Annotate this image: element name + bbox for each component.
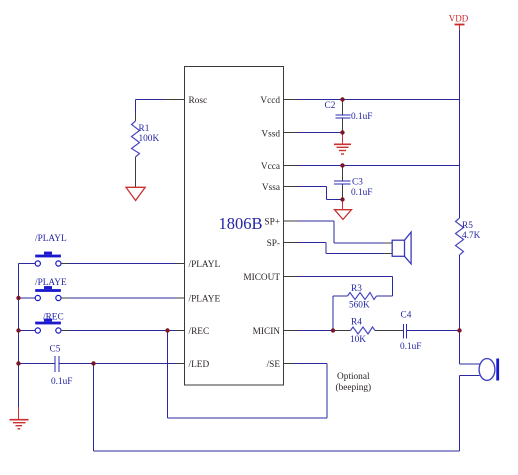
node Vccd-C2 junction [340, 97, 344, 101]
wire Vcca to VDD rail [284, 165, 460, 167]
pin /PLAYL label [189, 260, 221, 270]
wire bottom rail from C5 node to microphone [94, 364, 460, 452]
microphone MK1 [479, 359, 499, 381]
button /REC label [43, 313, 64, 323]
wire node to /LED pin [94, 363, 185, 365]
power VDD symbol [449, 14, 469, 31]
node bus-REC junction [16, 328, 20, 332]
pin SP- label [267, 239, 280, 249]
pin Rosc label [189, 96, 208, 106]
pushbutton S1 /PLAYL [35, 252, 61, 267]
node bus-LED junction [16, 361, 20, 365]
pin SP+ label [264, 218, 280, 228]
wire R4 to C4 [375, 330, 404, 332]
wire /PLAYL button to bus [19, 263, 36, 265]
wire /PLAYE button to IC [61, 297, 184, 299]
wire R1 bottom lead [135, 157, 137, 187]
wire /PLAYE button to bus [19, 297, 36, 299]
wire MICIN pin to node [284, 330, 333, 332]
wire node to R4 [333, 330, 351, 332]
svg-text:/REC: /REC [189, 327, 210, 337]
svg-text:/LED: /LED [189, 360, 210, 370]
svg-text:/PLAYL: /PLAYL [35, 234, 67, 244]
pin /LED label [189, 360, 210, 370]
svg-text:/PLAYE: /PLAYE [189, 295, 221, 305]
svg-text:(beeping): (beeping) [336, 382, 372, 393]
svg-text:Vcca: Vcca [261, 162, 280, 172]
ground below R1 (open triangle) [126, 187, 145, 200]
button /PLAYL label [35, 234, 67, 244]
svg-text:C3: C3 [352, 178, 363, 188]
wire VDD vertical rail [459, 30, 461, 331]
button /PLAYE label [35, 278, 67, 288]
svg-text:0.1uF: 0.1uF [51, 377, 72, 387]
node Vssd-C2 junction [340, 130, 344, 134]
svg-text:C2: C2 [325, 101, 336, 111]
capacitor C4 [400, 311, 421, 353]
resistor R1 [132, 121, 160, 157]
svg-text:R3: R3 [351, 284, 362, 294]
node Vcca-C3 junction [340, 163, 344, 167]
svg-text:0.1uF: 0.1uF [351, 112, 372, 122]
wire Rosc pin stub [136, 100, 185, 122]
svg-text:0.1uF: 0.1uF [400, 342, 421, 352]
wire microphone bottom lead [460, 375, 480, 377]
svg-text:SP-: SP- [267, 239, 280, 249]
pin Vssa label [262, 183, 280, 193]
svg-text:C4: C4 [401, 311, 412, 321]
svg-text:MICIN: MICIN [253, 327, 281, 337]
capacitor C5 [50, 345, 73, 388]
wire MICOUT to R3 [284, 277, 393, 297]
wire /SE to /REC loop [168, 331, 328, 419]
ground below C3 (open triangle) [335, 202, 352, 220]
pin MICOUT label [243, 273, 280, 283]
node bus-PLAYE junction [16, 296, 20, 300]
wire C4 to VDD rail node [407, 330, 460, 332]
node REC-SE junction [165, 328, 169, 332]
wire /LED net bus to C5 [19, 363, 56, 365]
svg-text:R4: R4 [351, 318, 362, 328]
pin Vssd label [261, 130, 280, 140]
wire /PLAYL button to IC [61, 263, 184, 265]
wire left ground bus [18, 264, 20, 408]
wire /REC button to IC [61, 330, 184, 332]
wire Rosc net [136, 100, 185, 122]
resistor R4 [350, 318, 375, 346]
wire SP+ to speaker [284, 221, 392, 243]
svg-text:560K: 560K [349, 301, 370, 311]
capacitor C2 [325, 100, 373, 133]
ground below bus (bars) [10, 407, 29, 429]
pin MICIN label [253, 327, 281, 337]
svg-text:/SE: /SE [267, 360, 281, 370]
wire /SE pin stub [284, 363, 293, 365]
svg-text:/PLAYL: /PLAYL [189, 260, 221, 270]
svg-text:10K: 10K [350, 335, 366, 345]
wire microphone top lead [460, 331, 480, 365]
node C5-LED junction [91, 361, 95, 365]
svg-text:C5: C5 [50, 345, 61, 355]
svg-text:Vssa: Vssa [262, 183, 280, 193]
wire R3 left to MICIN node [333, 296, 348, 331]
wire Vssa to C3 bottom [284, 187, 343, 200]
wire /REC button to bus [19, 330, 36, 332]
wire Vssd to C2 [284, 132, 343, 134]
op-amp U1 1806B IC body [185, 67, 284, 386]
svg-text:Rosc: Rosc [189, 96, 208, 106]
resistor R3 [348, 284, 377, 311]
capacitor C3 [334, 166, 372, 200]
wire SP- to speaker [284, 243, 392, 254]
svg-text:Optional: Optional [337, 372, 370, 382]
svg-text:VDD: VDD [449, 14, 469, 24]
wire C5 to node [59, 363, 94, 365]
svg-text:100K: 100K [139, 134, 160, 144]
speaker LS1 [392, 232, 411, 264]
resistor R5 [456, 218, 481, 255]
pin Vcca label [261, 162, 280, 172]
svg-text:4.7K: 4.7K [462, 231, 481, 241]
text Optional (beeping) [336, 372, 372, 393]
wire Vccd to VDD rail [284, 99, 460, 101]
svg-text:SP+: SP+ [264, 218, 280, 228]
svg-text:Vccd: Vccd [260, 96, 280, 106]
node Vssa-C3 junction [340, 197, 344, 201]
pushbutton S3 /REC [35, 319, 61, 334]
pin /REC label [189, 327, 210, 337]
pushbutton S2 /PLAYE [35, 286, 61, 301]
svg-text:R5: R5 [462, 221, 473, 231]
pin Vccd label [260, 96, 280, 106]
svg-text:0.1uF: 0.1uF [351, 188, 372, 198]
svg-text:Vssd: Vssd [261, 130, 280, 140]
svg-text:MICOUT: MICOUT [243, 273, 280, 283]
pin /PLAYE label [189, 295, 221, 305]
pin /SE label [267, 360, 281, 370]
svg-text:1806B: 1806B [219, 214, 263, 233]
node C4-mic junction [457, 328, 461, 332]
node MICIN junction [331, 328, 335, 332]
ground below C2 (bars) [334, 135, 351, 155]
svg-text:R1: R1 [139, 124, 150, 134]
